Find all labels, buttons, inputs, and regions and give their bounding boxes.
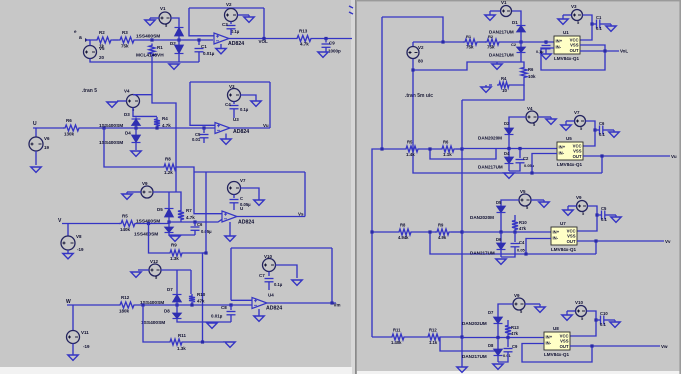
svg-text:47k: 47k bbox=[511, 331, 519, 336]
resistor R8 stage R3 bbox=[397, 229, 413, 235]
ground below D2 bbox=[178, 55, 180, 62]
svg-text:C4: C4 bbox=[225, 102, 231, 107]
svg-text:0.01: 0.01 bbox=[192, 137, 201, 142]
svg-text:V12: V12 bbox=[150, 259, 159, 264]
svg-text:4.7k: 4.7k bbox=[186, 215, 195, 220]
ground right of V4 bbox=[538, 116, 551, 118]
svg-text:V1: V1 bbox=[160, 6, 166, 11]
svg-text:C1: C1 bbox=[596, 15, 602, 20]
junction stage L3 to R9 bbox=[147, 222, 150, 225]
OUT wire VoL stage R1 bbox=[580, 50, 619, 52]
main wire rail to IC U5 bbox=[462, 148, 557, 150]
svg-text:0.1µ: 0.1µ bbox=[274, 282, 283, 287]
svg-text:R7: R7 bbox=[186, 208, 192, 213]
capacitor C4 under V3 bbox=[233, 102, 235, 105]
svg-text:LMV84x-Q1: LMV84x-Q1 bbox=[554, 56, 579, 61]
diode D1 DAN217UM bbox=[520, 33, 522, 42]
svg-text:R9: R9 bbox=[171, 243, 177, 248]
svg-text:75k: 75k bbox=[487, 45, 495, 50]
svg-text:0.1: 0.1 bbox=[599, 132, 605, 137]
svg-text:R6: R6 bbox=[443, 140, 449, 145]
svg-text:1.1k: 1.1k bbox=[429, 340, 438, 345]
svg-text:DAN217UM: DAN217UM bbox=[470, 251, 495, 256]
ground at R4 bbox=[481, 85, 491, 92]
VSS feedback wire stage R1 bbox=[541, 45, 605, 70]
IC U8 LMV84x-Q1 bbox=[544, 332, 570, 350]
svg-text:V6: V6 bbox=[44, 136, 50, 141]
svg-text:1.2k: 1.2k bbox=[164, 170, 173, 175]
svg-text:Vs: Vs bbox=[298, 212, 304, 217]
wire between 75k resistors bbox=[479, 41, 486, 43]
svg-text:C4: C4 bbox=[519, 240, 525, 245]
svg-text:U1: U1 bbox=[563, 30, 569, 35]
OUT wire Vu stage R2 bbox=[583, 155, 670, 157]
IC U5 LMV84x-Q1 bbox=[557, 142, 583, 160]
svg-text:R1: R1 bbox=[157, 45, 163, 50]
capacitor C10 bbox=[594, 318, 597, 321]
ground left of V9 bbox=[127, 191, 141, 193]
resistor R7 vertical 4.7k bbox=[178, 209, 184, 222]
main wire rail to IC U8 bbox=[462, 337, 544, 339]
svg-text:4.7k: 4.7k bbox=[162, 123, 171, 128]
wire V1 to D1 bbox=[171, 18, 179, 26]
svg-text:LMV84x-Q1: LMV84x-Q1 bbox=[557, 162, 582, 167]
svg-text:V9: V9 bbox=[514, 293, 520, 298]
resistor R11 stage R4 bbox=[390, 334, 406, 340]
svg-text:C6: C6 bbox=[599, 121, 605, 126]
junction main-D1-D2 bbox=[177, 38, 180, 41]
resistor R9 stage R3 bbox=[435, 229, 451, 235]
op-amp U3 AD824 bbox=[215, 123, 230, 134]
ground below op-amp U2 bbox=[220, 44, 222, 49]
svg-text:DAN2020M: DAN2020M bbox=[470, 215, 494, 220]
capacitor C3 under V2 bbox=[230, 22, 232, 25]
right panel bottom white strip bbox=[357, 371, 681, 374]
svg-text:Vm: Vm bbox=[334, 303, 341, 308]
svg-text:D5: D5 bbox=[496, 200, 502, 205]
feedback box stage L1 bbox=[189, 7, 264, 9]
voltage source V11 bbox=[72, 305, 74, 331]
svg-text:C2: C2 bbox=[523, 156, 529, 161]
svg-text:D6: D6 bbox=[496, 237, 502, 242]
diode D6 bbox=[168, 226, 170, 234]
wire R9 to rail bbox=[451, 231, 462, 233]
svg-text:0.01µ: 0.01µ bbox=[203, 51, 215, 56]
svg-text:V9: V9 bbox=[142, 181, 148, 186]
wire R6 node to rail x462 bbox=[462, 85, 524, 100]
svg-text:-19: -19 bbox=[83, 344, 90, 349]
resistor R10 vertical 47k bbox=[189, 294, 195, 304]
capacitor C4 stage R3 bbox=[514, 232, 516, 242]
capacitor C7 under V10 bbox=[268, 272, 270, 277]
voltage source V7 in box L3 bbox=[228, 182, 241, 195]
voltage source V9 above cluster bbox=[141, 186, 153, 198]
ground left of V4 bbox=[117, 100, 127, 102]
svg-text:0.1: 0.1 bbox=[600, 322, 606, 327]
voltage source V9 above IC U7 bbox=[577, 201, 588, 212]
rail x413 V2 bottom to feedback R2 bbox=[413, 70, 602, 173]
svg-text:V11: V11 bbox=[81, 330, 89, 335]
ground right of V5 bbox=[531, 199, 544, 201]
svg-text:4.7k: 4.7k bbox=[300, 42, 309, 47]
main wire stage R3 bbox=[372, 231, 397, 233]
ground left of V9 bbox=[568, 205, 577, 207]
svg-text:10: 10 bbox=[502, 88, 508, 93]
wire R6 to op-amp U3 bbox=[81, 127, 215, 129]
svg-text:1.1k: 1.1k bbox=[443, 152, 452, 157]
svg-text:80: 80 bbox=[418, 59, 424, 64]
capacitor C1 bbox=[590, 22, 593, 25]
svg-text:a: a bbox=[79, 35, 82, 41]
svg-text:0.1: 0.1 bbox=[596, 26, 602, 31]
IC U7 LMV84x-Q1 bbox=[551, 227, 577, 245]
ground below D8 R4 bbox=[497, 357, 499, 362]
voltage source V3 in box L2 bbox=[228, 89, 241, 102]
diode D8 DAN217UM stage R4 bbox=[497, 338, 499, 349]
svg-text:V4: V4 bbox=[124, 89, 130, 94]
svg-text:V2: V2 bbox=[226, 2, 232, 7]
ground below op-amp L3 bbox=[229, 222, 231, 236]
wire to IC U1 input bbox=[501, 41, 554, 43]
svg-text:U4: U4 bbox=[268, 293, 274, 298]
svg-text:R10: R10 bbox=[519, 220, 527, 225]
capacitor C9 stage R4 bbox=[507, 338, 509, 348]
svg-text:C6: C6 bbox=[197, 222, 203, 227]
svg-text:0.1µ: 0.1µ bbox=[231, 29, 240, 34]
svg-text:R3: R3 bbox=[122, 30, 128, 35]
resistor R6 10k vertical bbox=[521, 66, 527, 80]
svg-text:19: 19 bbox=[44, 145, 50, 150]
svg-text:D5: D5 bbox=[157, 207, 163, 212]
svg-text:10k: 10k bbox=[528, 74, 536, 79]
wire R11 to ground bbox=[184, 341, 224, 343]
resistor R11 1.3k bbox=[168, 339, 184, 345]
feedback box stage L3 bbox=[194, 171, 305, 173]
svg-text:0.05: 0.05 bbox=[517, 248, 526, 253]
diode D2 DAN2020M bbox=[508, 127, 510, 136]
svg-text:IN-: IN- bbox=[559, 151, 565, 156]
svg-text:R12: R12 bbox=[429, 328, 437, 333]
svg-text:V7: V7 bbox=[574, 110, 580, 115]
resistor R13 bbox=[295, 36, 313, 42]
bias resistor R4 10 bbox=[489, 84, 492, 86]
svg-text:R4: R4 bbox=[162, 116, 168, 121]
svg-text:VSS: VSS bbox=[560, 339, 569, 344]
junction C1 top bbox=[197, 38, 200, 41]
wire R11 R12 bbox=[406, 336, 426, 338]
OUT wire Vw stage R4 bbox=[570, 345, 660, 347]
resistor R6 130k bbox=[63, 125, 81, 131]
svg-text:W: W bbox=[66, 299, 71, 305]
resistor R6 1.1k right bbox=[440, 146, 456, 152]
right panel right edge line bbox=[679, 0, 681, 374]
svg-text:R2: R2 bbox=[99, 30, 105, 35]
svg-text:1.40k: 1.40k bbox=[391, 340, 402, 345]
ground below V11 bbox=[72, 344, 74, 356]
wire D7 to main R4 bbox=[497, 325, 499, 338]
svg-text:C10: C10 bbox=[600, 311, 608, 316]
voltage source V5 stage L1 input bbox=[84, 46, 97, 59]
wire V9 left to diode column R4 bbox=[498, 304, 513, 316]
svg-text:Vu: Vu bbox=[263, 123, 269, 128]
divider scroll mark bbox=[349, 6, 353, 14]
svg-text:R11: R11 bbox=[178, 333, 187, 338]
svg-text:D1: D1 bbox=[512, 20, 518, 25]
svg-text:R6: R6 bbox=[528, 67, 534, 72]
ground on cluster bottom wire bbox=[207, 323, 217, 328]
wire main to R11 bbox=[141, 303, 144, 306]
svg-text:C3: C3 bbox=[222, 22, 228, 27]
wire R12 to op-amp U4 bbox=[136, 304, 252, 306]
svg-text:DAN217UM: DAN217UM bbox=[462, 354, 487, 359]
svg-text:V8: V8 bbox=[76, 234, 82, 239]
svg-text:V3: V3 bbox=[229, 84, 235, 89]
wire V9 to VCC bbox=[577, 206, 597, 231]
rail x462 bbox=[461, 100, 463, 367]
diode D2 bbox=[178, 44, 180, 55]
wire R6 to rail x462 junction bbox=[456, 148, 462, 150]
voltage source V1 right panel top bbox=[512, 11, 521, 24]
svg-text:D8: D8 bbox=[488, 343, 494, 348]
feedback loop stage R3 bbox=[595, 241, 597, 254]
svg-text:75k: 75k bbox=[121, 44, 129, 49]
svg-text:R8: R8 bbox=[165, 157, 171, 162]
wire R12 to rail x462 bbox=[442, 336, 462, 338]
svg-text:DAN217UM: DAN217UM bbox=[489, 30, 514, 35]
ground right of C5 bbox=[605, 214, 616, 216]
capacitor C6 bbox=[193, 220, 196, 223]
op-amp U2 AD824 bbox=[214, 33, 229, 44]
svg-text:V10: V10 bbox=[264, 254, 273, 259]
svg-text:DAN202UM: DAN202UM bbox=[462, 321, 487, 326]
voltage source V2 right panel bbox=[412, 42, 414, 46]
wire D2 bottom to step wire bbox=[520, 54, 522, 62]
svg-text:0.1: 0.1 bbox=[601, 217, 607, 222]
voltage source V8 bbox=[67, 224, 69, 237]
svg-text:R4: R4 bbox=[501, 76, 507, 81]
svg-text:OUT: OUT bbox=[567, 239, 576, 244]
svg-text:180k: 180k bbox=[119, 309, 130, 314]
ground below C9 bbox=[325, 48, 327, 52]
wire D2 to main bbox=[508, 136, 510, 149]
svg-text:VSS: VSS bbox=[567, 234, 576, 239]
window divider between panels bbox=[351, 0, 355, 374]
wire R5 to op-amp bbox=[137, 219, 222, 223]
svg-text:D2: D2 bbox=[504, 121, 510, 126]
input cap stage R1 bbox=[544, 40, 547, 43]
voltage source V4 stage R2 bbox=[526, 111, 538, 123]
svg-text:OUT: OUT bbox=[573, 154, 582, 159]
right panel top edge line bbox=[357, 0, 681, 1]
diode D8 bbox=[176, 312, 178, 320]
svg-text:V3: V3 bbox=[571, 4, 577, 9]
junction output box bbox=[262, 37, 265, 40]
ground at V1 bbox=[150, 17, 159, 19]
main wire stage R4 bbox=[372, 336, 390, 338]
svg-text:R12: R12 bbox=[121, 295, 130, 300]
wire V12 to cluster L4 bbox=[161, 269, 191, 271]
ground left of V3 bbox=[563, 14, 572, 16]
voltage source V12 above cluster L4 bbox=[149, 264, 161, 276]
feedback box stage L4 bbox=[231, 247, 332, 249]
svg-text:IN+: IN+ bbox=[556, 39, 563, 44]
svg-text:C7: C7 bbox=[259, 273, 265, 278]
bypass step wire stage R2 bbox=[430, 149, 496, 160]
svg-text:Vu: Vu bbox=[671, 154, 677, 159]
svg-text:U5: U5 bbox=[566, 136, 572, 141]
wire diode to main R3 bbox=[500, 214, 502, 232]
bypass wire stage R3 bbox=[430, 232, 596, 254]
svg-text:OUT: OUT bbox=[570, 48, 579, 53]
svg-text:47k: 47k bbox=[197, 299, 205, 304]
voltage source V1 above diode D1 bbox=[159, 12, 171, 24]
junction R1 top bbox=[150, 38, 153, 41]
svg-text:75k: 75k bbox=[466, 45, 474, 50]
voltage source V6 bbox=[35, 128, 37, 137]
svg-text:R11: R11 bbox=[393, 328, 401, 333]
capacitor C9 bbox=[324, 37, 327, 40]
resistor R5 140k bbox=[119, 221, 137, 227]
output wire Vu stage L2 bbox=[230, 127, 270, 129]
voltage source V7 above IC U5 bbox=[575, 116, 586, 127]
svg-text:AD824: AD824 bbox=[233, 129, 249, 135]
ground right of R11 bbox=[225, 342, 235, 347]
ground right of V10 bbox=[276, 265, 298, 278]
svg-text:0.05µ: 0.05µ bbox=[240, 202, 251, 207]
svg-text:U8: U8 bbox=[553, 326, 559, 331]
diode D3 bbox=[135, 118, 137, 127]
main wire rail to IC U7 bbox=[462, 231, 551, 233]
resistor R1 vertical bbox=[149, 44, 155, 58]
wire R9 to rail bbox=[184, 252, 206, 254]
ground right of V3 bbox=[241, 95, 257, 101]
junction and rail down stage L2 bbox=[102, 126, 105, 129]
svg-text:R5: R5 bbox=[122, 214, 128, 219]
svg-text:DAN217UM: DAN217UM bbox=[478, 165, 503, 170]
diode D4 DAN217UM bbox=[508, 149, 510, 157]
main wire stage L2 bbox=[33, 127, 64, 129]
svg-text:R13: R13 bbox=[299, 29, 308, 34]
diode D7 DAN202UM stage R4 bbox=[497, 316, 499, 325]
ground right of V2 bbox=[238, 14, 250, 16]
ground below D6 R3 bbox=[500, 251, 502, 257]
svg-text:R2: R2 bbox=[488, 34, 494, 39]
ground below op-amp U4 bbox=[258, 309, 260, 316]
svg-text:V9: V9 bbox=[576, 195, 582, 200]
resistor R12 stage R4 bbox=[426, 334, 442, 340]
svg-text:C1: C1 bbox=[201, 44, 207, 49]
svg-text:VoL: VoL bbox=[620, 49, 628, 54]
voltage source V10 above IC U8 bbox=[576, 306, 587, 317]
ground left of V1 right bbox=[490, 10, 501, 12]
ground below D4 bbox=[508, 165, 510, 171]
svg-text:IN-: IN- bbox=[556, 45, 562, 50]
svg-text:DAN217UM: DAN217UM bbox=[489, 53, 514, 58]
resistor R2 bbox=[95, 37, 113, 43]
svg-text:C9: C9 bbox=[329, 41, 335, 46]
wire source V5 to main bbox=[90, 40, 95, 46]
svg-text:R8: R8 bbox=[400, 223, 406, 228]
voltage source V10 in box L4 bbox=[263, 259, 276, 272]
svg-text:0.1µ: 0.1µ bbox=[536, 50, 543, 54]
wire V4 top to rail bbox=[133, 94, 152, 96]
diode D6 DAN217UM stage R3 bbox=[500, 232, 502, 242]
ground left of V12 bbox=[138, 269, 149, 271]
svg-text:1SS400SM: 1SS400SM bbox=[99, 123, 123, 129]
wire V4 left to diode column bbox=[509, 117, 526, 127]
svg-text:IN-: IN- bbox=[553, 236, 559, 241]
svg-text:1.4k: 1.4k bbox=[406, 152, 415, 157]
resistor R8 1.2k bbox=[162, 164, 178, 170]
resistor R4 vertical 4.7k bbox=[154, 117, 160, 128]
svg-text:AD824: AD824 bbox=[228, 41, 244, 47]
svg-text:R9: R9 bbox=[438, 223, 444, 228]
svg-text:V4: V4 bbox=[527, 106, 533, 111]
svg-text:1000p: 1000p bbox=[328, 49, 341, 54]
svg-text:0.01: 0.01 bbox=[503, 353, 512, 358]
junction D7 main bbox=[175, 303, 178, 306]
cluster bottom wire stage L4 bbox=[177, 320, 231, 322]
svg-text:D4: D4 bbox=[504, 151, 510, 156]
svg-text:4.94k: 4.94k bbox=[398, 235, 409, 240]
main wire stage R1 bbox=[413, 41, 464, 43]
feedback loop stage R2 bbox=[601, 156, 603, 173]
top wire to corner bbox=[382, 17, 443, 42]
svg-text:V5: V5 bbox=[520, 189, 526, 194]
svg-text:R1: R1 bbox=[466, 34, 472, 39]
svg-text:C8: C8 bbox=[221, 305, 227, 310]
svg-text:DAN2020M: DAN2020M bbox=[478, 136, 502, 141]
svg-text:V10: V10 bbox=[575, 300, 584, 305]
resistor R12 180k bbox=[118, 302, 136, 308]
resistor R3 bbox=[118, 37, 136, 43]
output wire Vm stage L4 bbox=[267, 302, 336, 304]
wire R5 R6 bbox=[420, 148, 440, 150]
resistor 75k second stage R1 bbox=[485, 39, 501, 45]
ground below op-amp U3 bbox=[225, 134, 227, 140]
svg-text:Vv: Vv bbox=[665, 239, 671, 244]
wire V5 bottom rail bbox=[90, 59, 199, 63]
svg-text:C5: C5 bbox=[601, 206, 607, 211]
svg-text:D3: D3 bbox=[124, 112, 130, 117]
op-amp U4 AD824 bbox=[252, 298, 267, 309]
diode D7 bbox=[176, 293, 178, 303]
wire V5 left to diode column R3 bbox=[501, 200, 519, 205]
capacitor C5 bbox=[595, 213, 598, 216]
diode D1 bbox=[178, 26, 180, 37]
bypass wire stage R4 bbox=[440, 337, 498, 351]
port tick node a bbox=[85, 38, 88, 42]
svg-text:R6: R6 bbox=[66, 118, 72, 123]
svg-text:LMV84x-Q1: LMV84x-Q1 bbox=[551, 247, 576, 252]
ground right of V7 bbox=[241, 188, 260, 200]
svg-text:0.05µ: 0.05µ bbox=[524, 163, 535, 168]
resistor R5 1.4k bbox=[404, 146, 420, 152]
svg-text:1.3k: 1.3k bbox=[177, 346, 186, 351]
svg-text:.tran 5m uic: .tran 5m uic bbox=[405, 93, 433, 99]
svg-text:20: 20 bbox=[99, 55, 105, 60]
diode D5 bbox=[168, 207, 170, 218]
wire R2-R3 bbox=[113, 39, 118, 41]
wire V7 to VCC bbox=[583, 121, 595, 146]
capacitor C6 bbox=[593, 128, 596, 131]
svg-text:IN-: IN- bbox=[546, 341, 552, 346]
svg-text:R5: R5 bbox=[407, 140, 413, 145]
ground left of V10 bbox=[567, 310, 576, 312]
svg-text:D4: D4 bbox=[125, 131, 131, 136]
rail x382 stage R1 bbox=[381, 17, 383, 149]
resistor 75k first stage R1 bbox=[463, 39, 479, 45]
